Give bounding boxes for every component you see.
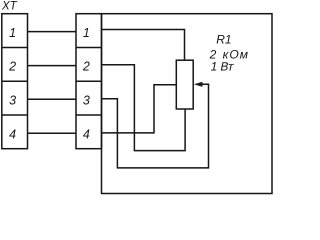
svg-text:1: 1 — [83, 26, 90, 40]
svg-text:Вт: Вт — [219, 59, 235, 73]
svg-text:3: 3 — [9, 94, 16, 108]
svg-text:ХТ: ХТ — [1, 0, 18, 12]
svg-text:2: 2 — [82, 60, 90, 74]
svg-text:1: 1 — [9, 26, 16, 40]
wire XT pin1 to device pin1 — [28, 31, 77, 33]
wire 3: pin3 to R1 wiper — [102, 84, 209, 168]
svg-text:2: 2 — [8, 60, 16, 74]
wire 2: pin2 to R1 bottom — [102, 65, 186, 151]
svg-text:1: 1 — [211, 59, 218, 73]
device terminal block body — [76, 14, 102, 149]
svg-text:3: 3 — [83, 94, 90, 108]
wire XT pin3 to device pin3 — [28, 98, 77, 100]
wire 1: pin1 to R1 top — [102, 30, 185, 61]
R1 wiper arrow — [194, 82, 203, 87]
svg-text:4: 4 — [83, 127, 90, 141]
svg-text:4: 4 — [9, 127, 16, 141]
wire 4: pin4 to R1 left tap — [102, 85, 177, 133]
wire XT pin4 to device pin4 — [28, 132, 77, 134]
resistor R1 body — [176, 60, 193, 109]
wire XT pin2 to device pin2 — [28, 65, 77, 67]
svg-text:R1: R1 — [216, 33, 231, 47]
device enclosure box — [102, 14, 273, 194]
connector XT body — [2, 14, 28, 149]
